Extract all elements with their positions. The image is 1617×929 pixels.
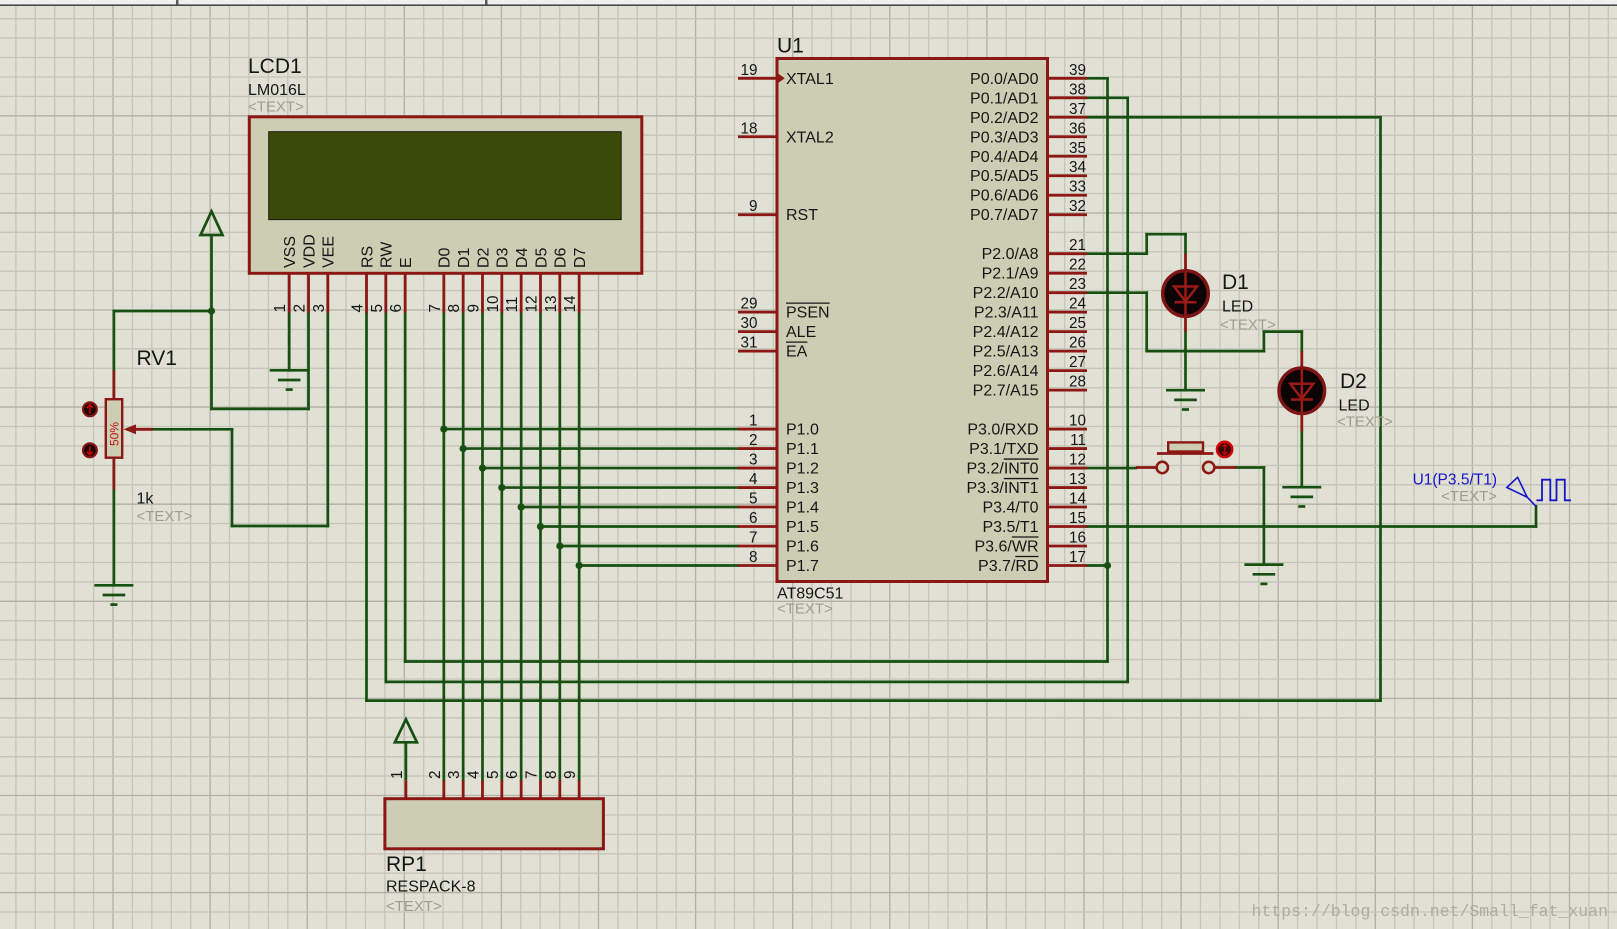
wire P2.0/A8 wire — [1087, 252, 1147, 255]
LCD1 screen area — [269, 132, 622, 220]
U1 pin 39 (P0.0/AD0) stub — [1048, 77, 1088, 80]
LCD1 body (LM016L display) — [249, 117, 642, 273]
svg-text:RP1: RP1 — [386, 853, 427, 876]
svg-text:P3.1/TXD: P3.1/TXD — [969, 441, 1038, 458]
RV1 decrement button — [83, 443, 97, 457]
U1 pin 26 (P2.5/A13) stub — [1048, 350, 1088, 353]
wire data bus D7 vertical — [578, 313, 581, 781]
wire E bus horizontal — [405, 660, 1107, 663]
RP1 pin 6 stub — [520, 780, 523, 798]
svg-text:P0.7/AD7: P0.7/AD7 — [970, 207, 1039, 224]
svg-text:D3: D3 — [495, 247, 512, 268]
LED D2 — [1279, 368, 1325, 414]
svg-text:P1.5: P1.5 — [786, 519, 819, 536]
diode D1 anode stub — [1184, 254, 1187, 272]
junction D3/P1.3 node — [498, 484, 505, 491]
RV1 bottom pin stub — [113, 458, 116, 490]
wire P2.2 horizontal — [1147, 350, 1264, 353]
svg-text:P0.5/AD5: P0.5/AD5 — [970, 168, 1039, 185]
wire P2.0 jog horizontal — [1147, 233, 1186, 236]
wire D2 cathode wire — [1300, 431, 1303, 487]
RV1 top pin stub — [113, 371, 116, 400]
svg-text:<TEXT>: <TEXT> — [137, 508, 193, 525]
svg-text:https://blog.csdn.net/Small_fa: https://blog.csdn.net/Small_fat_xuan — [1252, 902, 1608, 921]
svg-text:RW: RW — [379, 241, 396, 268]
svg-text:1k: 1k — [137, 491, 155, 508]
svg-text:<TEXT>: <TEXT> — [386, 898, 442, 915]
svg-text:P2.4/A12: P2.4/A12 — [973, 324, 1039, 341]
LCD1 pin 8 (D1) stub — [462, 273, 465, 313]
svg-text:39: 39 — [1069, 62, 1086, 79]
svg-text:D2: D2 — [1340, 370, 1367, 393]
U1 pin 7 (P1.6) stub — [738, 545, 777, 548]
ground (D1) — [1166, 390, 1205, 409]
junction D1/P1.1 node — [460, 445, 467, 452]
push-button plunger — [1168, 442, 1203, 451]
svg-text:7: 7 — [749, 530, 758, 547]
wire RW bus vertical right to P0.1/AD1 — [1126, 98, 1129, 682]
svg-text:16: 16 — [1069, 530, 1086, 547]
svg-text:P2.7/A15: P2.7/A15 — [973, 383, 1039, 400]
push-button left contact — [1157, 462, 1168, 473]
svg-text:9: 9 — [466, 304, 483, 313]
svg-text:P0.4/AD4: P0.4/AD4 — [970, 149, 1039, 166]
svg-text:29: 29 — [740, 296, 757, 313]
wire data bus D5 vertical — [539, 313, 542, 781]
svg-text:2: 2 — [749, 432, 758, 449]
toolbar tick 1 — [176, 0, 179, 5]
svg-text:VEE: VEE — [321, 236, 338, 268]
wire RV1 bottom wire to ground — [113, 490, 116, 586]
wire RW bus horizontal to pin 38 — [1087, 96, 1128, 99]
ground (RV1) — [94, 585, 133, 604]
U1 pin 2 (P1.1) stub — [738, 447, 777, 450]
wire data bus D6 vertical — [558, 313, 561, 781]
ground (D2) — [1282, 487, 1321, 506]
svg-text:6: 6 — [504, 770, 521, 779]
LCD1 pin 7 (D0) stub — [442, 273, 445, 313]
svg-text:P2.1/A9: P2.1/A9 — [982, 266, 1039, 283]
svg-text:31: 31 — [740, 335, 757, 352]
svg-text:P2.3/A11: P2.3/A11 — [974, 305, 1039, 322]
LCD1 pin 5 (RW) stub — [384, 273, 387, 313]
svg-text:12: 12 — [1069, 452, 1086, 469]
wire RW vertical — [385, 313, 388, 682]
svg-text:XTAL2: XTAL2 — [786, 129, 834, 146]
junction D0/P1.0 node — [440, 425, 447, 432]
wire RV1 top wire — [113, 311, 116, 371]
U1 pin 32 (P0.7/AD7) stub — [1048, 213, 1088, 216]
wire D2 anode vertical — [1300, 332, 1303, 351]
U1 pin 24 (P2.3/A11) stub — [1048, 311, 1088, 314]
svg-text:U1: U1 — [777, 35, 804, 58]
junction D6/P1.6 node — [556, 542, 563, 549]
svg-text:1: 1 — [749, 413, 758, 430]
U1 pin 11 (P3.1/TXD) stub — [1048, 447, 1088, 450]
RP1 pin 1 stub — [404, 780, 407, 798]
svg-text:21: 21 — [1069, 237, 1086, 254]
svg-text:6: 6 — [749, 510, 758, 527]
U1 pin 18 (XTAL2) stub — [738, 135, 777, 138]
svg-text:8: 8 — [749, 549, 758, 566]
U1 pin 23 (P2.2/A10) stub — [1048, 291, 1088, 294]
svg-text:<TEXT>: <TEXT> — [777, 601, 833, 618]
svg-text:P0.0/AD0: P0.0/AD0 — [970, 71, 1039, 88]
wire P3.5/T1 long horizontal — [1087, 525, 1536, 528]
LCD1 pin 9 (D2) stub — [481, 273, 484, 313]
wire E bus horizontal to pin 39 — [1087, 77, 1108, 80]
svg-text:P0.1/AD1: P0.1/AD1 — [970, 90, 1039, 107]
svg-text:50%: 50% — [107, 422, 121, 446]
svg-text:13: 13 — [543, 295, 560, 312]
wire wiper wire vertical — [231, 429, 234, 526]
svg-text:LED: LED — [1339, 398, 1370, 415]
svg-text:P2.0/A8: P2.0/A8 — [982, 246, 1039, 263]
push-button actuator bar — [1157, 452, 1214, 455]
svg-text:P1.6: P1.6 — [786, 539, 819, 556]
ground (LCD VSS) — [270, 370, 309, 389]
svg-text:RS: RS — [359, 246, 376, 268]
XTAL1 clock-input arrow marker — [777, 73, 785, 85]
overline for P3.6/WR — [1012, 536, 1039, 538]
diode D2 anode stub — [1300, 351, 1303, 369]
LCD1 pin 13 (D6) stub — [558, 273, 561, 313]
svg-text:35: 35 — [1069, 140, 1086, 157]
U1 pin 13 (P3.3/INT1) stub — [1048, 486, 1088, 489]
svg-text:P1.0: P1.0 — [786, 422, 819, 439]
U1 pin 25 (P2.4/A12) stub — [1048, 330, 1088, 333]
svg-text:38: 38 — [1069, 81, 1086, 98]
RP1 pin 8 stub — [558, 780, 561, 798]
ground (button) — [1244, 565, 1283, 584]
svg-text:14: 14 — [562, 295, 579, 313]
wire RV1 wiper wire horizontal — [153, 428, 233, 431]
svg-text:D2: D2 — [475, 247, 492, 268]
svg-text:4: 4 — [749, 471, 758, 488]
wire P1.1 wire — [463, 447, 738, 450]
U1 pin 22 (P2.1/A9) stub — [1048, 272, 1088, 275]
svg-text:D6: D6 — [553, 247, 570, 268]
LCD1 pin 12 (D5) stub — [539, 273, 542, 313]
svg-text:P3.6/WR: P3.6/WR — [974, 539, 1038, 556]
svg-text:6: 6 — [388, 304, 405, 313]
push-button actuate indicator — [1217, 442, 1232, 457]
svg-text:P2.5/A13: P2.5/A13 — [973, 344, 1039, 361]
U1 pin 30 (ALE) stub — [738, 330, 777, 333]
svg-text:3: 3 — [446, 770, 463, 779]
svg-text:24: 24 — [1069, 296, 1087, 313]
U1 pin 1 (P1.0) stub — [738, 428, 777, 431]
power terminal (VDD near LCD) — [201, 211, 223, 311]
wire data bus D3 vertical — [500, 313, 503, 781]
svg-text:P3.3/INT1: P3.3/INT1 — [966, 480, 1038, 497]
wire RS bus vertical right — [1379, 117, 1382, 700]
LCD1 pin 14 (D7) stub — [578, 273, 581, 313]
svg-text:<TEXT>: <TEXT> — [248, 99, 304, 116]
svg-text:14: 14 — [1069, 491, 1087, 508]
svg-text:D4: D4 — [514, 247, 531, 268]
svg-text:P3.0/RXD: P3.0/RXD — [967, 422, 1038, 439]
diode D1 cathode stub — [1184, 316, 1187, 332]
svg-text:13: 13 — [1069, 471, 1086, 488]
wire P3.7/RD wire to E bus vertical — [1087, 564, 1108, 567]
wire data bus D0 vertical — [442, 313, 445, 781]
svg-text:10: 10 — [485, 295, 502, 312]
U1 pin 33 (P0.6/AD6) stub — [1048, 194, 1088, 197]
svg-text:4: 4 — [466, 770, 483, 779]
RP1 pin 2 stub — [442, 780, 445, 798]
U1 pin 36 (P0.3/AD3) stub — [1048, 135, 1088, 138]
wire RS bus horizontal — [367, 699, 1381, 702]
svg-text:LED: LED — [1222, 299, 1253, 316]
svg-text:ALE: ALE — [786, 324, 816, 341]
svg-text:P3.5/T1: P3.5/T1 — [982, 519, 1038, 536]
wire button right wire — [1236, 466, 1264, 469]
U1 pin 6 (P1.5) stub — [738, 525, 777, 528]
svg-text:P3.7/RD: P3.7/RD — [978, 558, 1038, 575]
svg-text:7: 7 — [523, 770, 540, 779]
toolbar tick 2 — [485, 0, 488, 5]
svg-text:RV1: RV1 — [137, 347, 177, 370]
push-button left pin stub — [1136, 466, 1157, 469]
svg-text:17: 17 — [1069, 549, 1086, 566]
svg-text:LM016L: LM016L — [248, 82, 306, 99]
svg-text:1: 1 — [272, 304, 289, 313]
svg-text:2: 2 — [427, 770, 444, 779]
wire data bus D2 vertical — [481, 313, 484, 781]
svg-text:D0: D0 — [437, 247, 454, 268]
U1 pin 37 (P0.2/AD2) stub — [1048, 116, 1088, 119]
svg-text:19: 19 — [740, 62, 757, 79]
svg-text:<TEXT>: <TEXT> — [1337, 414, 1393, 431]
wire P1.5 wire — [540, 525, 738, 528]
svg-text:2: 2 — [292, 304, 309, 313]
wire E bus vertical right to P0.0/AD0 — [1106, 78, 1109, 661]
wire RS vertical — [365, 313, 368, 701]
U1 pin 16 (P3.6/WR) stub — [1048, 545, 1088, 548]
wire P1.6 wire — [560, 545, 738, 548]
LCD1 pin 2 (VDD) stub — [307, 273, 310, 313]
svg-text:36: 36 — [1069, 120, 1086, 137]
LCD1 pin 10 (D3) stub — [500, 273, 503, 313]
wire LCD VSS wire to ground — [288, 313, 291, 371]
svg-text:22: 22 — [1069, 257, 1086, 274]
U1 pin 21 (P2.0/A8) stub — [1048, 252, 1088, 255]
U1 pin 5 (P1.4) stub — [738, 506, 777, 509]
square wave glyph — [1537, 480, 1572, 501]
svg-text:27: 27 — [1069, 354, 1086, 371]
wire P1.3 wire — [502, 486, 738, 489]
svg-text:P1.7: P1.7 — [786, 558, 819, 575]
wire RS bus horizontal to P0.2/AD2 — [1087, 116, 1381, 119]
wire button ground vertical — [1263, 468, 1266, 565]
U1 pin 9 (RST) stub — [738, 213, 777, 216]
RP1 pin 5 stub — [500, 780, 503, 798]
U1 pin 8 (P1.7) stub — [738, 564, 777, 567]
svg-text:4: 4 — [350, 304, 367, 313]
wire VEE vertical up to LCD pin3 — [327, 313, 330, 526]
wire wiper wire horizontal to VEE column — [232, 525, 328, 528]
svg-text:RST: RST — [786, 207, 818, 224]
svg-text:U1(P3.5/T1): U1(P3.5/T1) — [1413, 472, 1497, 489]
wire P2.2 horizontal 2 — [1264, 330, 1302, 333]
wire data bus D1 vertical — [462, 313, 465, 781]
wire P3.2/INT0 wire to button — [1087, 467, 1136, 470]
svg-text:P1.1: P1.1 — [786, 441, 819, 458]
wire P1.4 wire — [521, 506, 738, 509]
RV1 wiper arrow — [135, 428, 153, 431]
RP1 pin 4 stub — [481, 780, 484, 798]
U1 pin 3 (P1.2) stub — [738, 467, 777, 470]
wire P2.2/A10 wire — [1087, 291, 1147, 294]
overline for EA — [786, 341, 807, 343]
svg-text:3: 3 — [311, 304, 328, 313]
svg-text:9: 9 — [562, 770, 579, 779]
svg-text:EA: EA — [786, 344, 808, 361]
svg-text:P1.3: P1.3 — [786, 480, 819, 497]
svg-text:D1: D1 — [1222, 271, 1249, 294]
wire VDD vertical up to LCD pin2 — [307, 313, 310, 409]
LCD1 pin 6 (E) stub — [404, 273, 407, 313]
svg-text:7: 7 — [427, 304, 444, 313]
svg-text:P3.4/T0: P3.4/T0 — [982, 500, 1038, 517]
wire RW bus horizontal — [386, 681, 1128, 684]
U1 pin 4 (P1.3) stub — [738, 486, 777, 489]
LCD1 pin 3 (VEE) stub — [326, 273, 329, 313]
U1 pin 34 (P0.5/AD5) stub — [1048, 174, 1088, 177]
wire P2.2 vertical jog — [1145, 293, 1148, 351]
wire VDD horizontal to RV1 — [114, 310, 212, 313]
svg-text:<TEXT>: <TEXT> — [1441, 488, 1497, 505]
U1 pin 29 (PSEN) stub — [738, 311, 777, 314]
LCD1 pin 4 (RS) stub — [365, 273, 368, 313]
wire P3.5/T1 vertical to probe — [1535, 506, 1538, 526]
svg-text:LCD1: LCD1 — [248, 55, 302, 78]
U1 pin 27 (P2.6/A14) stub — [1048, 369, 1088, 372]
svg-text:34: 34 — [1069, 159, 1087, 176]
toolbar remnant strip — [0, 0, 1617, 5]
svg-text:VDD: VDD — [301, 234, 318, 268]
svg-text:XTAL1: XTAL1 — [786, 71, 834, 88]
RP1 pin 9 stub — [578, 780, 581, 798]
svg-text:37: 37 — [1069, 101, 1086, 118]
svg-text:P0.3/AD3: P0.3/AD3 — [970, 129, 1039, 146]
svg-text:26: 26 — [1069, 335, 1086, 352]
junction VDD node — [208, 307, 215, 314]
junction D4/P1.4 node — [518, 503, 525, 510]
svg-text:VSS: VSS — [282, 236, 299, 268]
U1 pin 17 (P3.7/RD) stub — [1048, 564, 1088, 567]
U1 pin 35 (P0.4/AD4) stub — [1048, 155, 1088, 158]
wire D1 anode vertical — [1184, 234, 1187, 253]
svg-text:11: 11 — [504, 297, 521, 313]
svg-text:P2.2/A10: P2.2/A10 — [973, 285, 1039, 302]
svg-text:<TEXT>: <TEXT> — [1220, 317, 1276, 334]
overline for P3.3/INT1 — [1004, 478, 1039, 480]
resistor pack RP1 body (RESPACK-8) — [385, 799, 604, 849]
svg-text:18: 18 — [740, 120, 757, 137]
U1 pin 28 (P2.7/A15) stub — [1048, 389, 1088, 392]
svg-text:D7: D7 — [572, 247, 589, 268]
svg-text:1: 1 — [389, 770, 406, 779]
diode D2 cathode stub — [1300, 413, 1303, 431]
svg-text:E: E — [398, 257, 415, 268]
junction D7/P1.7 node — [576, 562, 583, 569]
svg-text:5: 5 — [485, 770, 502, 779]
svg-text:15: 15 — [1069, 510, 1086, 527]
wire P1.2 wire — [483, 467, 739, 470]
power terminal (RP1 pin1) — [395, 719, 417, 780]
svg-text:12: 12 — [523, 295, 540, 312]
U1 pin 31 (EA) stub — [738, 350, 777, 353]
wire E vertical — [404, 313, 407, 662]
svg-text:P1.2: P1.2 — [786, 461, 819, 478]
junction D5/P1.5 node — [537, 523, 544, 530]
wire P1.7 wire — [579, 564, 738, 567]
svg-text:33: 33 — [1069, 179, 1086, 196]
wire VDD vertical below power arrow — [210, 311, 213, 409]
LCD1 pin 1 (VSS) stub — [288, 273, 291, 313]
RP1 pin 3 stub — [462, 780, 465, 798]
svg-text:25: 25 — [1069, 315, 1086, 332]
wire data bus D4 vertical — [520, 313, 523, 781]
push-button right pin stub — [1215, 466, 1236, 469]
svg-text:P1.4: P1.4 — [786, 500, 819, 517]
svg-text:P0.2/AD2: P0.2/AD2 — [970, 110, 1039, 127]
push-button right contact — [1203, 462, 1214, 473]
svg-text:23: 23 — [1069, 276, 1086, 293]
svg-text:P3.2/INT0: P3.2/INT0 — [966, 461, 1038, 478]
RP1 pin 7 stub — [539, 780, 542, 798]
svg-text:32: 32 — [1069, 198, 1086, 215]
svg-text:P0.6/AD6: P0.6/AD6 — [970, 188, 1039, 205]
U1 pin 10 (P3.0/RXD) stub — [1048, 428, 1088, 431]
svg-text:PSEN: PSEN — [786, 305, 830, 322]
svg-text:D5: D5 — [533, 247, 550, 268]
svg-text:RESPACK-8: RESPACK-8 — [386, 879, 476, 896]
U1 pin 12 (P3.2/INT0) stub — [1048, 467, 1088, 470]
wire VDD horizontal to LCD VDD column — [212, 408, 309, 411]
U1 pin 14 (P3.4/T0) stub — [1048, 506, 1088, 509]
wire P1.0 wire — [444, 428, 738, 431]
wire P2.2 vertical jog 2 — [1263, 332, 1266, 351]
potentiometer RV1 body — [106, 399, 122, 458]
svg-text:P2.6/A14: P2.6/A14 — [973, 363, 1039, 380]
svg-text:11: 11 — [1070, 432, 1086, 449]
wire D1 cathode wire — [1184, 332, 1187, 391]
wire P2.0 jog vertical — [1145, 234, 1148, 253]
svg-text:5: 5 — [369, 304, 386, 313]
svg-text:8: 8 — [446, 304, 463, 313]
RV1 increment button — [83, 402, 97, 416]
overline for P3.7/RD — [1015, 556, 1038, 558]
svg-text:28: 28 — [1069, 374, 1086, 391]
LED D1 — [1163, 271, 1209, 317]
junction P3.7/E node — [1104, 562, 1111, 569]
svg-text:8: 8 — [543, 770, 560, 779]
svg-text:5: 5 — [749, 491, 758, 508]
overline for PSEN — [786, 302, 830, 304]
overline for P3.2/INT0 — [1004, 458, 1039, 460]
U1 pin 15 (P3.5/T1) stub — [1048, 525, 1088, 528]
svg-text:10: 10 — [1069, 413, 1086, 430]
svg-text:D1: D1 — [456, 247, 473, 268]
svg-text:30: 30 — [740, 315, 757, 332]
IC U1 (AT89C51 microcontroller) body — [777, 59, 1048, 582]
junction D2/P1.2 node — [479, 464, 486, 471]
svg-text:3: 3 — [749, 452, 758, 469]
probe cone symbol — [1507, 477, 1536, 506]
